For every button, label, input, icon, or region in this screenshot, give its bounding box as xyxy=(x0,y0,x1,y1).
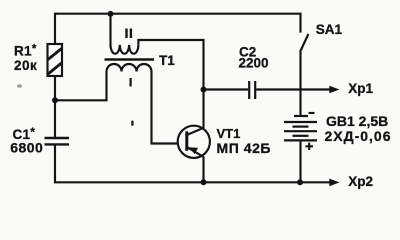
transformer T1 winding I xyxy=(107,64,152,72)
wire GB1 to bottom rail xyxy=(299,140,301,182)
switch SA1 blade xyxy=(300,34,308,52)
battery GB1 xyxy=(284,113,317,150)
stray ink mark xyxy=(17,84,22,88)
svg-text:VT1: VT1 xyxy=(217,126,241,141)
wire C2 to Xp1 arrow xyxy=(256,88,330,90)
wire collector node to VT1 xyxy=(202,90,204,129)
wire winding I left lead xyxy=(55,72,107,101)
output arrow Xp2 xyxy=(329,179,339,187)
svg-text:6800: 6800 xyxy=(10,139,43,155)
wire winding I right lead to VT1 base xyxy=(152,72,187,144)
node junction VT1 emitter / bottom rail xyxy=(201,179,207,185)
wire C2 left lead xyxy=(204,88,249,90)
svg-text:Xp1: Xp1 xyxy=(348,81,373,96)
wire top rail (R1 top to SA1 top contact) xyxy=(55,14,301,45)
node junction R1 / C1 / winding I xyxy=(52,97,58,103)
wire SA1 to GB1 xyxy=(299,52,301,116)
stray ink dash xyxy=(131,121,133,126)
svg-text:T1: T1 xyxy=(159,53,175,68)
transformer T1 core xyxy=(105,58,155,60)
label winding I roman numeral tick xyxy=(130,78,132,87)
wire R1 to C1 xyxy=(54,76,56,138)
wire winding II right lead to collector node xyxy=(138,40,203,90)
svg-text:МП 42Б: МП 42Б xyxy=(217,140,272,156)
node junction collector / C2 xyxy=(201,87,207,93)
node junction GB1 / bottom rail xyxy=(297,179,303,185)
svg-text:SA1: SA1 xyxy=(316,22,343,37)
capacitor C2 xyxy=(249,81,255,99)
svg-text:2200: 2200 xyxy=(239,56,269,71)
resistor R1 xyxy=(48,44,63,76)
transistor VT1 xyxy=(178,126,210,158)
svg-text:Xp2: Xp2 xyxy=(348,174,373,189)
label winding II roman numeral ticks xyxy=(127,29,131,39)
capacitor C1 xyxy=(45,138,70,144)
output arrow Xp1 xyxy=(329,86,339,94)
svg-text:GB1 2,5В: GB1 2,5В xyxy=(326,113,388,129)
svg-text:2ХД-0,06: 2ХД-0,06 xyxy=(325,128,392,144)
wire VT1 emitter to bottom rail xyxy=(202,157,204,183)
svg-text:20к: 20к xyxy=(14,58,37,73)
wire winding II left lead xyxy=(109,14,111,45)
node junction top rail to winding II xyxy=(108,11,114,17)
wire C1 to bottom rail xyxy=(55,144,331,182)
transformer T1 winding II xyxy=(111,45,139,54)
